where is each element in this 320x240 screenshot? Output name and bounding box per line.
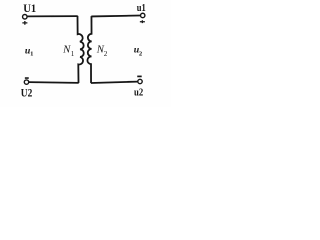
polarity + at U1 (22, 21, 27, 25)
wire bottom-left (29, 81, 79, 84)
svg-text:U2: U2 (21, 87, 33, 99)
svg-text:N: N (62, 43, 71, 55)
winding N1 (primary coil) (78, 16, 84, 83)
svg-text:2: 2 (104, 50, 108, 58)
polarity - at u2 (137, 75, 141, 77)
polarity + at u1 (140, 20, 145, 23)
svg-text:U1: U1 (23, 3, 36, 15)
svg-text:u2: u2 (134, 87, 143, 98)
wire bottom-right (91, 82, 138, 83)
winding N2 (secondary coil) (87, 16, 91, 83)
wire top-right (91, 15, 140, 18)
svg-text:u1: u1 (137, 3, 146, 14)
terminal u2 (bottom-right) (138, 79, 142, 83)
terminal U1 (top-left) (23, 15, 28, 20)
svg-text:1: 1 (30, 50, 33, 57)
terminal u1 (top-right) (141, 13, 145, 17)
svg-text:1: 1 (71, 50, 75, 58)
wire top-left (27, 15, 77, 17)
svg-text:2: 2 (139, 50, 143, 57)
terminal U2 (bottom-left) (24, 80, 28, 84)
polarity - at U2 (25, 77, 29, 79)
